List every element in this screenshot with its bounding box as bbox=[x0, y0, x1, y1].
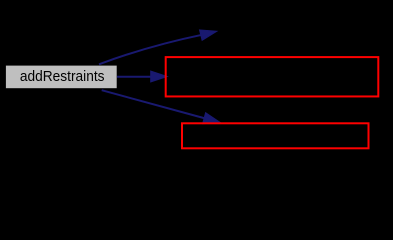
svg-text:addRestraints: addRestraints bbox=[20, 69, 105, 85]
wire edge to red box 1 (middle) bbox=[117, 76, 152, 78]
wire edge to hidden node (top) bbox=[99, 35, 203, 65]
node red box 2 (truncated callee) bbox=[182, 123, 369, 148]
arrowhead top edge bbox=[200, 30, 217, 40]
arrowhead middle edge bbox=[151, 71, 168, 82]
wire edge to red box 2 (bottom) bbox=[102, 90, 205, 118]
node addRestraints bbox=[6, 66, 117, 89]
node red box 1 (truncated callee) bbox=[166, 57, 379, 96]
arrowhead bottom edge bbox=[203, 113, 221, 124]
